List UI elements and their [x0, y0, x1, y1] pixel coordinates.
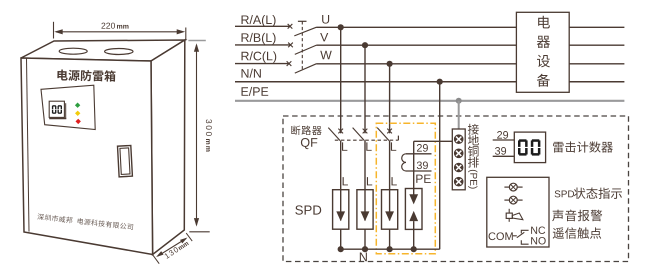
label 声音报警 [552, 210, 602, 222]
SPD N-PE module terminal wire (PE) [413, 141, 415, 188]
breaker QF pole 3 blade [377, 128, 389, 141]
SPD module 2 [357, 190, 373, 230]
SPD module 1 bottom stub [340, 229, 342, 249]
lightning counter box [514, 132, 545, 163]
node N [437, 79, 443, 85]
rail node 2 [362, 246, 368, 252]
front door inner edge [27, 58, 30, 231]
label E/PE [242, 87, 269, 96]
label 断路器 [291, 126, 321, 135]
drop wire W [389, 64, 391, 134]
counter coil terminal 39 wire [406, 170, 432, 172]
label 29 (counter) [497, 131, 508, 139]
label N [360, 253, 367, 262]
enclosure front face [21, 58, 153, 255]
SPD module 3 terminal label L [391, 177, 396, 185]
label R/A(L) [242, 15, 276, 27]
wire R/C(L) [235, 63, 289, 65]
label 29 (coil) [417, 144, 428, 152]
label PE [416, 175, 431, 183]
label 39 (coil) [417, 161, 428, 169]
top hole right [105, 49, 133, 55]
drop wire U [340, 27, 342, 133]
label R/B(L) [242, 33, 276, 45]
breaker QF pole 1 wire [340, 141, 342, 190]
enclosure right face [151, 40, 185, 255]
breaker linkage [335, 139, 399, 141]
rail node 4 [411, 246, 417, 252]
company name text [37, 213, 133, 230]
label V [320, 33, 328, 41]
dimension 130mm [153, 255, 160, 264]
indicator lamp 2 [504, 199, 509, 201]
rail node 1 [338, 246, 344, 252]
label QF [301, 138, 317, 149]
isolator linkage [301, 21, 303, 70]
breaker QF pole 2 wire [364, 141, 366, 190]
label N/N [242, 69, 261, 78]
earth busbar terminal strip [452, 129, 465, 190]
node V [362, 42, 368, 48]
label NC [531, 226, 545, 234]
wire R/A(L) [235, 25, 290, 27]
label R/C(L) [242, 51, 277, 63]
label 39 (counter) [495, 147, 506, 155]
node PE [456, 98, 462, 104]
main isolator pole 2 contact [288, 43, 293, 48]
main isolator pole 1 blade [294, 27, 316, 36]
breaker QF pole 3 wire [389, 141, 391, 190]
counter wire 29 [493, 139, 515, 141]
LED green [75, 103, 80, 108]
label 接地铜排 [468, 124, 479, 168]
breaker QF pole 2 contact [363, 129, 368, 134]
busbar screw 4 [454, 177, 463, 186]
node U [338, 24, 344, 30]
wire E/PE [235, 100, 624, 102]
top hole left [59, 48, 87, 54]
SPD label [295, 205, 321, 214]
SPD surge counter coil box (orange) [376, 123, 435, 254]
SPD module 1 terminal label L [343, 177, 348, 185]
label U [322, 15, 329, 24]
breaker pole 2 label L [366, 142, 371, 150]
label NO [531, 237, 546, 245]
dimension 300mm [188, 40, 205, 42]
breaker QF pole 1 blade [328, 128, 340, 141]
main isolator pole 1 contact [288, 24, 293, 29]
counter display 00 [518, 139, 528, 155]
indicator box [487, 177, 549, 247]
wire W [317, 63, 625, 65]
busbar screw 3 [454, 163, 463, 172]
breaker QF pole 3 contact [387, 129, 392, 134]
breaker QF pole 2 blade [353, 128, 365, 141]
label W [320, 51, 332, 59]
LED yellow [75, 111, 80, 116]
SPD module 2 bottom stub [364, 229, 366, 249]
main isolator pole 3 contact [287, 61, 292, 66]
breaker QF pole 1 contact [338, 129, 343, 134]
N bottom rail [341, 248, 440, 250]
SPD cabinet dashed outline [283, 116, 629, 262]
front panel [41, 85, 95, 129]
label (PE) rotated [468, 170, 477, 189]
panel display 00 [49, 101, 64, 117]
wire R/B(L) [235, 44, 291, 46]
label 雷击计数器 [553, 141, 613, 152]
rail node 3 [387, 246, 393, 252]
breaker pole 1 label L [342, 142, 347, 150]
SPD module 3 [382, 190, 398, 230]
changeover contact COM [489, 232, 513, 240]
SPD N-PE gap module [405, 189, 422, 230]
wire V [317, 44, 625, 46]
drop wire V [364, 45, 366, 133]
N-PE module bottom stub [413, 229, 415, 249]
label 遥信触点 [553, 227, 602, 238]
main isolator pole 2 blade [295, 45, 317, 54]
door handle [118, 145, 133, 176]
drop wire PE to busbar [458, 101, 460, 129]
indicator lamp 1 [504, 186, 509, 188]
label 电源防雷箱 [57, 69, 115, 81]
equipment box 电器设备 [516, 12, 569, 92]
drop wire N [439, 82, 441, 250]
LED red [76, 119, 81, 124]
SPD module 3 bottom stub [389, 229, 391, 249]
counter coil terminal 29 wire [406, 153, 432, 155]
counter wire 39 [493, 155, 515, 157]
wire U [317, 26, 625, 28]
node W [387, 61, 393, 67]
SPD module 2 terminal label L [367, 177, 372, 185]
enclosure top face [21, 40, 185, 61]
dimension 220mm [53, 22, 55, 39]
counter sense coil [402, 154, 406, 171]
counter coil top wire to busbar [414, 140, 453, 142]
busbar screw 1 [454, 135, 463, 144]
busbar screw 2 [454, 149, 463, 158]
breaker pole 3 label L [391, 142, 396, 150]
main isolator pole 3 blade [295, 64, 317, 73]
wire N/N [235, 81, 624, 83]
SPD module 1 [333, 190, 349, 230]
label SPD状态指示 [555, 190, 574, 197]
buzzer [508, 209, 510, 222]
